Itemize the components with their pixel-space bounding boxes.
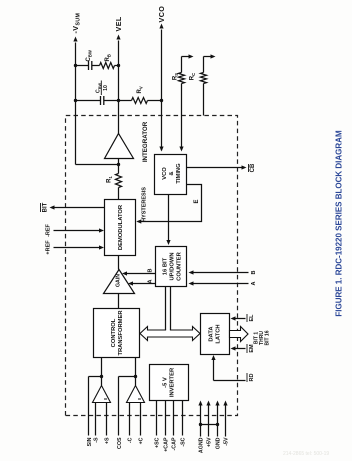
svg-text:R1: R1 (107, 176, 114, 183)
svg-text:E: E (194, 199, 200, 203)
svg-text:BIT: BIT (43, 202, 49, 212)
svg-text:COUNTER: COUNTER (177, 251, 183, 280)
svg-text:SIN: SIN (87, 437, 93, 446)
svg-text:VCO: VCO (162, 167, 168, 180)
svg-text:VCO: VCO (157, 6, 166, 23)
svg-text:B: B (251, 270, 257, 274)
svg-text:CB: CB (250, 163, 256, 172)
svg-text:TRANSFORMER: TRANSFORMER (118, 310, 124, 356)
svg-text:214-2865 tel: 500-19: 214-2865 tel: 500-19 (283, 451, 329, 457)
svg-text:-5 V: -5 V (163, 377, 169, 388)
svg-text:VEL: VEL (114, 16, 123, 31)
svg-text:+5V: +5V (207, 437, 213, 447)
svg-text:LATCH: LATCH (216, 324, 222, 343)
svg-text:FIGURE 1. RDC-19220 SERIES BL: FIGURE 1. RDC-19220 SERIES BLOCK DIAGRAM (335, 130, 344, 317)
svg-text:RS: RS (173, 73, 180, 80)
svg-text:-C: -C (128, 437, 134, 443)
svg-text:GAIN: GAIN (116, 274, 122, 287)
svg-text:BIT 16: BIT 16 (265, 330, 271, 345)
svg-text:+REF: +REF (46, 240, 52, 255)
svg-text:HYSTERESIS: HYSTERESIS (142, 187, 148, 222)
svg-text:EM: EM (249, 344, 255, 353)
svg-text:+C: +C (139, 437, 145, 444)
svg-text:EL: EL (249, 314, 255, 322)
svg-text:&: & (169, 171, 175, 175)
svg-text:RB: RB (105, 54, 112, 61)
svg-text:-SC: -SC (181, 437, 187, 446)
svg-text:+SC: +SC (155, 437, 161, 448)
svg-text:-S: -S (94, 437, 100, 443)
svg-text:B: B (148, 268, 154, 272)
svg-text:INVERTER: INVERTER (170, 367, 176, 397)
svg-text:RV: RV (137, 86, 144, 93)
svg-text:+S: +S (105, 437, 111, 444)
svg-text:AGND: AGND (199, 437, 205, 453)
svg-text:RC: RC (190, 73, 197, 80)
svg-text:INTEGRATOR: INTEGRATOR (142, 121, 149, 162)
svg-text:-5V: -5V (224, 437, 230, 446)
svg-text:A: A (148, 279, 154, 283)
svg-text:TIMING: TIMING (176, 163, 182, 184)
svg-text:CONTROL: CONTROL (111, 318, 117, 347)
svg-text:-REF: -REF (46, 223, 52, 236)
svg-text:-CAP: -CAP (172, 437, 178, 450)
svg-text:A: A (251, 281, 257, 285)
svg-text:RD: RD (249, 374, 255, 382)
svg-text:DEMODULATOR: DEMODULATOR (118, 204, 124, 250)
svg-text:CBW: CBW (86, 50, 93, 61)
svg-text:GND: GND (216, 437, 222, 449)
svg-text:+CAP: +CAP (164, 437, 170, 452)
svg-text:UP/DOWN: UP/DOWN (170, 252, 176, 280)
svg-text:DATA: DATA (209, 326, 215, 342)
svg-text:-VSUM: -VSUM (71, 13, 82, 34)
svg-text:16 BIT: 16 BIT (163, 257, 169, 275)
svg-text:COS: COS (117, 437, 123, 449)
svg-text:10: 10 (103, 85, 109, 91)
